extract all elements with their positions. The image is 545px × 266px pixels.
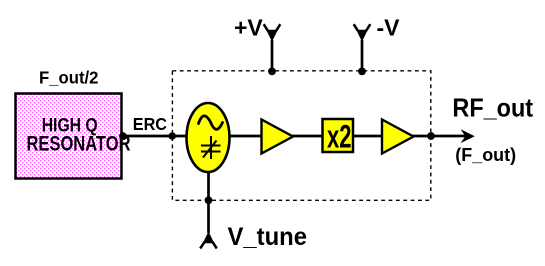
V_tune input arrow [200, 232, 217, 249]
svg-text:-V: -V [377, 15, 401, 41]
module dashed enclosure [172, 71, 430, 201]
wire resonator to oscillator (node ERC) [122, 135, 188, 138]
wire A1 to doubler [292, 135, 324, 138]
wire -V to module [361, 40, 364, 71]
svg-text:x2: x2 [327, 118, 352, 154]
frequency doubler x2 [323, 118, 354, 154]
wire doubler to amplifier A2 [352, 135, 383, 138]
svg-text:RESONATOR: RESONATOR [27, 132, 131, 156]
wire A2 to RF output [413, 135, 467, 138]
amplifier A2 [382, 120, 414, 154]
RF output arrowhead [461, 129, 475, 143]
svg-text:+V: +V [234, 15, 263, 41]
resonator R1 HIGH Q RESONATOR box [16, 94, 131, 179]
junction dot +V [268, 68, 276, 76]
junction dot -V [358, 68, 366, 76]
junction dot at resonator output [119, 132, 127, 140]
+V supply input arrow [264, 24, 281, 42]
amplifier A1 [262, 120, 294, 154]
wire oscillator to amplifier A1 [229, 135, 262, 138]
svg-text:RF_out: RF_out [452, 92, 533, 122]
wire V_tune to oscillator [207, 171, 210, 233]
svg-text:V_tune: V_tune [228, 223, 308, 251]
svg-text:ERC: ERC [133, 114, 168, 134]
junction dot at module output [427, 132, 435, 140]
junction dot at module boundary [168, 132, 176, 140]
wire +V to module [271, 40, 274, 71]
junction dot V_tune [205, 196, 213, 204]
-V supply input arrow [354, 24, 371, 42]
svg-text:F_out/2: F_out/2 [39, 68, 99, 88]
svg-text:(F_out): (F_out) [455, 145, 516, 165]
oscillator U1 (VCO) [187, 103, 230, 172]
